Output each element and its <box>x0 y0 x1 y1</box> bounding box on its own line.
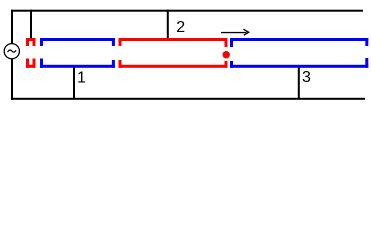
svg-text:2: 2 <box>176 19 185 36</box>
svg-text:1: 1 <box>77 69 86 86</box>
svg-text:3: 3 <box>302 69 311 86</box>
